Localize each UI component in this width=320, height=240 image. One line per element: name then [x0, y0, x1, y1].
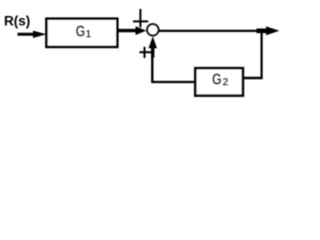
block G1 — [46, 19, 117, 47]
svg-text:R(s): R(s) — [4, 13, 30, 28]
label G1 — [76, 23, 92, 40]
feedback up arrow into summing junction — [149, 36, 158, 57]
svg-text:G: G — [76, 23, 86, 40]
plus sign (feedback input to summing junction) — [139, 47, 151, 58]
output arrow — [257, 26, 280, 35]
output wire from summing junction — [159, 30, 263, 32]
label G2 — [212, 71, 229, 88]
svg-text:G: G — [212, 71, 222, 88]
svg-text:1: 1 — [85, 29, 91, 41]
svg-text:2: 2 — [223, 77, 229, 89]
block G2 — [195, 68, 243, 95]
summing junction — [147, 24, 158, 35]
branch wire horizontal into G2 — [242, 77, 263, 79]
feedback wire vertical up to arrow — [151, 50, 153, 83]
plus sign (input to summing junction) — [133, 9, 148, 27]
feedback wire horizontal from G2 — [152, 81, 196, 83]
branch wire vertical (takeoff to feedback) — [261, 31, 263, 79]
wire/arrow G1 to summing junction — [117, 26, 146, 35]
input arrow into G1 — [18, 31, 47, 38]
